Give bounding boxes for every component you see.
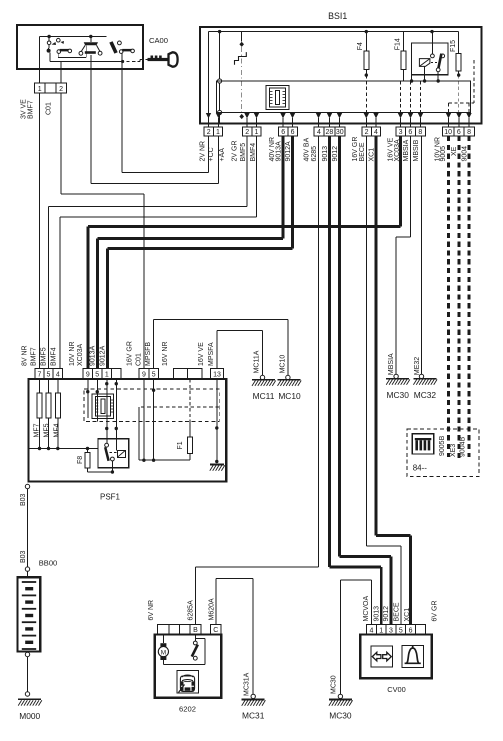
svg-text:F4: F4 — [357, 42, 364, 50]
ignition key CA00 symbol — [148, 58, 168, 61]
svg-text:6: 6 — [409, 627, 413, 634]
BSI internal supply rail — [209, 31, 459, 33]
svg-text:9013: 9013 — [374, 606, 381, 622]
svg-text:BMF5: BMF5 — [41, 347, 48, 366]
PSF1 connector pins 7 5 4 — [35, 369, 44, 379]
BSI connector pins 16V GR (BECE XC1) — [362, 127, 371, 136]
terminal below battery — [25, 652, 29, 656]
svg-text:C01: C01 — [46, 102, 53, 115]
wire M620A to ground MC31 — [215, 579, 217, 625]
wire XE (heavy dashed) — [458, 136, 461, 459]
svg-text:BMF5: BMF5 — [240, 143, 247, 162]
wire XC03A (heavy) — [399, 136, 402, 227]
connector C01 pin strip — [34, 83, 45, 93]
svg-text:XE3: XE3 — [450, 444, 457, 457]
BSI internal dashed links to 10V pins — [448, 103, 450, 112]
svg-text:MBSIA: MBSIA — [388, 353, 395, 375]
svg-text:9: 9 — [142, 372, 146, 379]
battery BB00 — [25, 567, 29, 571]
svg-text:MC30: MC30 — [387, 390, 410, 400]
svg-text:3V VE: 3V VE — [21, 99, 28, 119]
BSI pin terminals (arrows) — [206, 113, 211, 118]
svg-text:9013: 9013 — [322, 146, 329, 162]
svg-text:BMF4: BMF4 — [250, 143, 257, 162]
svg-text:+AA: +AA — [219, 148, 226, 162]
svg-text:MC10: MC10 — [278, 391, 301, 401]
svg-text:4: 4 — [374, 129, 378, 136]
svg-text:3: 3 — [399, 129, 403, 136]
svg-text:MC11: MC11 — [253, 391, 275, 401]
6202 connector pin C — [210, 625, 221, 635]
BSI1 unit box — [200, 27, 482, 124]
svg-text:XC03A: XC03A — [77, 343, 84, 366]
svg-text:M: M — [161, 649, 166, 656]
svg-text:4: 4 — [317, 129, 321, 136]
svg-text:MC31A: MC31A — [243, 672, 250, 696]
wire +AA — [218, 136, 220, 183]
stub wires into C01 — [39, 69, 41, 83]
BSI fuse F4 — [365, 32, 367, 52]
6202 motor M — [162, 634, 164, 643]
svg-text:MBSIB: MBSIB — [413, 139, 420, 161]
svg-text:6: 6 — [281, 129, 285, 136]
wire 9004 (heavy dashed) — [468, 136, 471, 457]
svg-text:1: 1 — [254, 129, 258, 136]
BSI internal connector rail — [217, 81, 471, 113]
connector unit 84- dashed box — [407, 429, 479, 477]
svg-text:F8: F8 — [77, 456, 84, 464]
svg-text:1: 1 — [38, 86, 42, 93]
svg-text:9012: 9012 — [383, 606, 390, 622]
svg-text:1: 1 — [105, 372, 109, 379]
wire MPSFB to ground MC10 — [153, 319, 155, 368]
svg-text:9005: 9005 — [440, 146, 447, 162]
PSF1 internal dashed block — [84, 389, 219, 422]
svg-text:9012A: 9012A — [99, 345, 106, 366]
ground MC30 lower — [338, 694, 342, 698]
svg-text:84--: 84-- — [413, 464, 428, 473]
wire B03 — [27, 489, 29, 567]
BSI connector pins 16V VE (XC03A MBSIA MBSIB) — [396, 127, 405, 136]
unit 6202 box — [155, 634, 221, 697]
PSF1 internal lower bus — [139, 459, 190, 461]
ignition contact 2 — [90, 37, 92, 43]
svg-text:6202: 6202 — [179, 705, 196, 714]
svg-text:XC1: XC1 — [404, 608, 411, 622]
ignition contact 1 link bar — [57, 53, 59, 57]
svg-text:MC31: MC31 — [242, 711, 265, 721]
svg-text:8V NR: 8V NR — [22, 345, 29, 366]
svg-text:10V NR: 10V NR — [69, 341, 76, 366]
PSF1 internal wires into dashed block — [87, 379, 89, 419]
svg-text:MF4: MF4 — [53, 423, 60, 437]
fuse MF4 — [57, 379, 59, 394]
svg-text:30: 30 — [336, 129, 344, 136]
ground MC11 — [260, 375, 264, 379]
svg-text:BMF7: BMF7 — [28, 100, 35, 119]
svg-text:BB00: BB00 — [39, 559, 58, 568]
PSF1 internal relay — [98, 439, 129, 468]
svg-text:MPSFB: MPSFB — [145, 342, 152, 366]
svg-text:8: 8 — [467, 129, 471, 136]
svg-text:6V GR: 6V GR — [432, 600, 439, 621]
6202 internal link — [163, 663, 205, 665]
PSF1 blank connector pair — [173, 369, 187, 379]
BSI connector pins 2V GR (BMF5 BMF4) — [243, 127, 252, 136]
fuse MF5 — [48, 379, 50, 394]
wire BECE — [365, 136, 367, 546]
wire 9012A (heavy) — [291, 136, 294, 249]
ignition link to key — [50, 61, 123, 63]
key mechanical link (dashed) — [127, 61, 141, 63]
wire 9005 (heavy dashed) — [447, 136, 450, 457]
wire MPSFA to ground MC11 — [216, 330, 218, 368]
wire BMF5 — [246, 136, 248, 207]
svg-text:B03: B03 — [20, 550, 27, 563]
svg-text:16V VE: 16V VE — [198, 342, 205, 366]
ground MC30 (MBSIA) — [394, 374, 398, 378]
wire MBSIB / ME32 to ground MC32 — [421, 136, 423, 374]
ground MC10 — [286, 375, 290, 379]
fuse MF7 — [39, 379, 41, 394]
svg-text:9005B: 9005B — [439, 435, 446, 456]
svg-text:F14: F14 — [394, 38, 401, 50]
PSF1 connector pin 13 (MPSFA) — [211, 369, 224, 379]
svg-text:6V NR: 6V NR — [148, 600, 155, 621]
CV00 direction arrows icon — [371, 646, 392, 667]
svg-text:5: 5 — [47, 372, 51, 379]
ground MC31 — [251, 694, 255, 698]
svg-text:F1: F1 — [177, 441, 184, 449]
wire 9013A (heavy) — [282, 136, 285, 239]
svg-text:B: B — [193, 627, 198, 634]
svg-text:9004B: 9004B — [459, 436, 466, 457]
svg-text:MF7: MF7 — [33, 423, 40, 437]
svg-text:7: 7 — [38, 372, 42, 379]
svg-text:B03: B03 — [20, 493, 27, 506]
6202 connector pins (B) — [158, 625, 170, 635]
84- connector icon — [412, 434, 434, 454]
svg-text:6285A: 6285A — [187, 600, 194, 621]
BSI internal wire +AA with connector terminals — [219, 32, 221, 124]
svg-text:2: 2 — [245, 129, 249, 136]
svg-text:BMF4: BMF4 — [51, 347, 58, 366]
BSI relay dashed outputs to pins — [400, 81, 402, 113]
BSI internal connector icon — [266, 86, 289, 110]
PSF1 internal connector icon — [92, 394, 114, 419]
PSF1 internal wire MPSFB to bus — [153, 379, 155, 461]
wire 9012 (heavy) — [338, 136, 341, 557]
6202 switch — [194, 634, 196, 641]
svg-text:BSI1: BSI1 — [328, 11, 347, 21]
CV00 connector pins 4 1 3 5 6 — [367, 625, 377, 635]
wire BMF4 — [256, 136, 258, 217]
svg-text:MC10: MC10 — [280, 355, 287, 374]
BSI connector pins 40V BA (6285 9013 9012) — [314, 127, 324, 136]
fuse F1 — [189, 422, 191, 438]
6202 car icon — [177, 671, 199, 693]
ignition switch internal supply rail — [40, 36, 107, 38]
ignition contact 3 — [109, 41, 117, 53]
svg-text:9013A: 9013A — [89, 345, 96, 366]
svg-text:MPSFA: MPSFA — [208, 342, 215, 366]
svg-text:40V BA: 40V BA — [304, 137, 311, 161]
ignition switch unit box — [17, 25, 143, 69]
PSF1 internal bus to battery feed — [29, 448, 98, 450]
svg-text:MC30: MC30 — [329, 711, 352, 721]
wire MBSIA to ground MC30 — [410, 136, 412, 237]
svg-text:2: 2 — [207, 129, 211, 136]
svg-text:C: C — [213, 627, 218, 634]
svg-text:6: 6 — [457, 129, 461, 136]
BSI fuse F15 — [458, 32, 460, 54]
svg-text:5: 5 — [399, 627, 403, 634]
BSI internal wire +CC — [208, 32, 210, 124]
svg-text:13: 13 — [213, 372, 221, 379]
svg-text:MC30: MC30 — [330, 675, 337, 694]
svg-text:MC11A: MC11A — [254, 350, 261, 373]
svg-text:PSF1: PSF1 — [100, 493, 121, 502]
ignition contact 1 — [48, 37, 50, 42]
svg-text:XE: XE — [451, 146, 458, 156]
wire battery to ground — [27, 657, 29, 692]
svg-text:2V NR: 2V NR — [199, 141, 206, 162]
svg-text:8: 8 — [418, 129, 422, 136]
svg-text:3: 3 — [389, 627, 393, 634]
wire XC1 (heavy) — [375, 136, 378, 536]
BSI internal splice (dash-dot link) — [241, 32, 243, 42]
svg-text:BECE: BECE — [393, 602, 400, 621]
BSI connector pins 10V NR (9005 XE 9004) — [443, 127, 454, 136]
svg-text:6: 6 — [408, 129, 412, 136]
svg-text:BMF7: BMF7 — [30, 347, 37, 366]
svg-text:MC32: MC32 — [414, 390, 437, 400]
svg-text:XC1: XC1 — [368, 148, 375, 162]
svg-text:16V GR: 16V GR — [352, 137, 359, 162]
svg-text:ME32: ME32 — [414, 357, 421, 375]
svg-text:2: 2 — [365, 129, 369, 136]
svg-text:F15: F15 — [450, 40, 457, 52]
svg-text:1: 1 — [216, 129, 220, 136]
terminal B03 at PSF1 — [25, 484, 29, 488]
svg-text:9: 9 — [86, 372, 90, 379]
wire 9013 (heavy) — [328, 136, 331, 567]
BSI connector pins 40V NR (9013A 9012A) — [279, 127, 289, 136]
svg-text:CA00: CA00 — [149, 36, 168, 45]
PSF1 unit box — [29, 379, 227, 482]
ground MC32 — [419, 374, 423, 378]
svg-text:5: 5 — [152, 372, 156, 379]
svg-text:2: 2 — [59, 86, 63, 93]
svg-text:M620A: M620A — [208, 598, 215, 621]
fuse F8 — [87, 449, 89, 453]
svg-text:C01: C01 — [135, 353, 142, 366]
PSF1 internal ground from pin 13 — [216, 379, 218, 463]
svg-text:16V GR: 16V GR — [127, 341, 134, 366]
svg-text:1: 1 — [379, 627, 383, 634]
BSI connector pins 2V NR (+CC +AA) — [204, 127, 213, 136]
svg-text:5: 5 — [95, 372, 99, 379]
CV00 bell icon — [402, 646, 423, 668]
svg-text:M000: M000 — [19, 711, 40, 721]
svg-text:4: 4 — [56, 372, 60, 379]
wire +CC — [208, 136, 210, 172]
wire MCVOA to ground MC30 — [370, 580, 372, 625]
ground M000 — [25, 692, 29, 696]
svg-text:2V GR: 2V GR — [232, 140, 239, 161]
svg-text:MF5: MF5 — [43, 423, 50, 437]
BSI relay — [412, 43, 448, 75]
svg-text:9012: 9012 — [332, 146, 339, 162]
svg-text:CV00: CV00 — [387, 685, 406, 694]
wire BMF7 — [39, 93, 41, 369]
svg-text:10: 10 — [444, 129, 452, 136]
svg-text:16V NR: 16V NR — [162, 341, 169, 366]
svg-text:MCVOA: MCVOA — [363, 596, 370, 622]
BSI fuse F14 — [403, 32, 405, 52]
wire 6285 — [318, 136, 320, 567]
PSF1 internal wire C01 to bus — [143, 379, 145, 461]
svg-text:9004: 9004 — [461, 146, 468, 162]
PSF1 connector pins 9 5 1 (heavy wires) — [83, 369, 93, 379]
svg-text:6285: 6285 — [311, 146, 318, 162]
svg-text:28: 28 — [326, 129, 334, 136]
svg-text:9013A: 9013A — [276, 141, 283, 162]
svg-text:MBSIA: MBSIA — [403, 139, 410, 161]
wire C01 — [60, 93, 62, 194]
PSF1 connector pins 9 5 (C01 MPSFB) — [139, 369, 149, 379]
svg-text:4: 4 — [369, 627, 373, 634]
unit CV00 box — [360, 635, 431, 679]
svg-text:6: 6 — [291, 129, 295, 136]
svg-text:BECE: BECE — [359, 142, 366, 161]
